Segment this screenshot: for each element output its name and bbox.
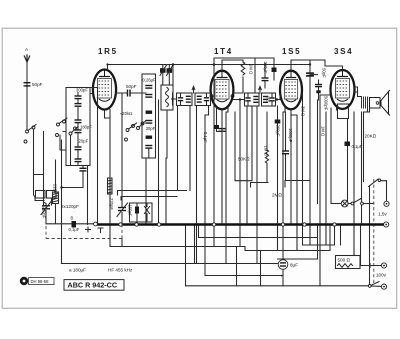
tuning gang section 2	[117, 93, 128, 223]
svg-text:ABC R 942-CC: ABC R 942-CC	[68, 281, 118, 290]
coil can boxes top of gang	[36, 191, 46, 199]
junction dots top rail	[264, 63, 266, 65]
tube V1 1R5	[90, 70, 119, 110]
svg-text:455: 455	[266, 96, 271, 104]
trimmer capacitors with arrows (osc)	[160, 65, 173, 86]
pilot lamp	[331, 200, 348, 207]
terminal 1.5V	[378, 201, 389, 216]
svg-text:1M Ω: 1M Ω	[249, 64, 254, 74]
main ground bus (thick)	[96, 223, 386, 226]
wire 1R5 cathode to bus	[105, 110, 111, 247]
resistor 1M with zigzag (1S5 diode load)	[264, 112, 269, 183]
wire box bottom to bus	[87, 166, 89, 225]
logo emblem bottom left	[20, 277, 54, 285]
capacitor (black) near 1S5	[272, 58, 277, 80]
wire antenna box to bus	[90, 88, 98, 225]
switch S4 (B+)	[368, 282, 381, 288]
below-bus rail upper (B+)	[199, 226, 318, 259]
tube V4 base box	[338, 104, 349, 119]
wire T2 left cap to 1T4 plate	[234, 98, 279, 246]
chassis marker + T	[86, 222, 104, 232]
wire 1T4 pins down	[217, 108, 229, 264]
svg-text:8μF: 8μF	[290, 263, 298, 268]
antenna A	[24, 47, 29, 62]
antenna coil box	[66, 88, 90, 166]
wire to gang 1	[43, 132, 45, 206]
resistor 500 ohm box	[336, 256, 361, 269]
wire 1S5 pins down	[283, 108, 297, 251]
IF transformer T1	[177, 87, 211, 106]
oscillator box	[142, 74, 156, 158]
oscillator coil can	[161, 85, 173, 110]
svg-text:50pF: 50pF	[126, 84, 137, 89]
right short rail	[303, 226, 341, 245]
wire long left vertical	[61, 195, 63, 264]
svg-text:0,1μF: 0,1μF	[69, 227, 80, 232]
capacitor 5000pF vertical	[307, 65, 329, 246]
model box ABC R 942-CC	[64, 280, 124, 291]
svg-text:1R5: 1R5	[98, 47, 118, 56]
capacitor 1000pF	[282, 112, 293, 181]
svg-text:0,26μF: 0,26μF	[143, 78, 157, 83]
below-bus rail 3	[205, 275, 283, 277]
switch S5 (band, ganged)	[369, 179, 387, 247]
svg-text:5000pF: 5000pF	[324, 96, 329, 111]
svg-text:B: B	[71, 216, 74, 221]
wire 3S4 grid column	[320, 95, 331, 286]
svg-text:50pF: 50pF	[32, 82, 43, 87]
svg-text:a 180μF: a 180μF	[69, 268, 86, 273]
wire 3S4 plate to speaker	[355, 87, 362, 97]
capacitors 3S4 grid (black)	[315, 80, 322, 100]
wire speaker secondary down	[364, 109, 370, 182]
wire coil box taps	[52, 132, 71, 206]
below-bus rail 1	[110, 226, 330, 251]
band switch S1b	[56, 118, 68, 137]
resistor 20K vertical + label	[362, 112, 377, 223]
svg-text:30pF: 30pF	[146, 126, 156, 131]
resistor 1M vertical (1T4 grid)	[234, 60, 254, 93]
wire screen feed 1T4	[214, 58, 274, 93]
padder box with capacitors	[128, 203, 153, 222]
capacitor 250uF (screen)	[262, 62, 269, 89]
bus terminal right	[384, 222, 389, 227]
svg-text:3S4: 3S4	[334, 47, 353, 56]
wire osc section verticals	[146, 65, 173, 225]
wire to 100V terminal	[360, 264, 382, 268]
below-bus vertical wires	[186, 226, 370, 286]
junction dots on bus	[119, 223, 336, 226]
below-bus rail 2	[62, 263, 284, 265]
tuning gang section 1	[41, 201, 52, 224]
svg-text:2MΩ: 2MΩ	[272, 193, 282, 198]
electrolytic 8uF	[278, 226, 298, 286]
capacitor (black) 1T4 cathode	[214, 125, 226, 132]
oscillator padding coil	[53, 160, 59, 224]
capacitor 0.1uF output	[345, 112, 363, 256]
capacitor 50pF antenna	[24, 82, 43, 87]
wire 1R5 grid cap	[116, 84, 146, 97]
band switch S2b	[137, 121, 146, 130]
svg-text:50pF: 50pF	[322, 68, 327, 78]
capacitor black 200uF + label	[275, 120, 281, 137]
oscillator feedback coil	[108, 178, 113, 194]
svg-text:1M Ω: 1M Ω	[321, 126, 326, 136]
band switch S2a	[125, 123, 137, 141]
wire grid return rails	[118, 191, 187, 201]
svg-text:≈20kΩ: ≈20kΩ	[120, 111, 132, 116]
wire 3S4 cathode/screen down	[331, 108, 349, 204]
svg-text:500 Ω: 500 Ω	[338, 258, 351, 263]
wire T1 left to 1R5 plate	[173, 93, 177, 105]
wire switch chain left	[34, 129, 45, 201]
svg-text:300pF: 300pF	[76, 88, 88, 93]
svg-text:20KΩ: 20KΩ	[365, 134, 377, 139]
svg-text:1,5v: 1,5v	[378, 212, 387, 217]
wire T2 pins down	[235, 95, 280, 251]
band switch S1a	[24, 125, 36, 144]
trimmer capacitors in antenna box	[75, 93, 93, 166]
wire 1S5 top bracket	[291, 60, 343, 71]
wire antenna lead	[26, 63, 28, 130]
svg-text:100v: 100v	[376, 273, 387, 278]
svg-text:150pF: 150pF	[128, 205, 133, 217]
svg-text:1S5: 1S5	[282, 47, 301, 56]
terminal bottom right	[381, 284, 386, 289]
capacitor B 0.1uF (black) on lead	[69, 216, 80, 233]
svg-text:0,1μF: 0,1μF	[203, 132, 208, 143]
svg-text:HF 455 kHz: HF 455 kHz	[108, 268, 133, 273]
svg-text:DH 98-58: DH 98-58	[31, 279, 50, 284]
loudspeaker LS	[362, 90, 391, 116]
capacitor 50pF at 1S5/3S4	[306, 63, 327, 78]
switch S3 (filament)	[348, 199, 373, 205]
capacitor 0.1uF (osc grid)	[203, 129, 226, 144]
svg-text:3M Ω: 3M Ω	[301, 106, 306, 116]
tube V2 1T4	[210, 71, 234, 110]
dashed gang link right	[373, 179, 375, 285]
svg-text:1T4: 1T4	[214, 47, 233, 56]
svg-text:50KΩ: 50KΩ	[238, 157, 250, 162]
oscillator capacitors column	[145, 86, 155, 159]
wire detector rails	[251, 181, 311, 188]
wire plate 1R5 to top rail	[108, 65, 311, 225]
svg-text:20μF: 20μF	[79, 139, 89, 144]
band switch S1c	[69, 127, 78, 136]
resistor 2.2k vertical (left column)	[53, 184, 58, 194]
IF transformer T2	[245, 87, 276, 107]
svg-text:180pF: 180pF	[80, 125, 92, 130]
mechanical link dashed	[46, 220, 122, 239]
wire T1 pins down	[178, 106, 209, 276]
tube V4 3S4	[331, 70, 355, 109]
terminal mid right	[381, 263, 386, 268]
tube V3 1S5	[280, 71, 302, 110]
capacitor below antenna box	[60, 140, 86, 195]
resistor 1M vertical right	[318, 100, 326, 204]
wire gang2 riser	[121, 239, 123, 247]
wire gang to B cap lead	[46, 223, 96, 225]
svg-text:200μF: 200μF	[276, 125, 281, 137]
svg-text:250μF: 250μF	[263, 62, 268, 74]
bottom rail	[186, 285, 371, 287]
svg-text:+: +	[281, 274, 284, 279]
resistor 2M vertical (AVC)	[301, 95, 306, 245]
svg-text:220pF: 220pF	[109, 198, 114, 210]
svg-text:220pF: 220pF	[42, 207, 47, 219]
svg-text:2x120pF: 2x120pF	[61, 204, 79, 209]
